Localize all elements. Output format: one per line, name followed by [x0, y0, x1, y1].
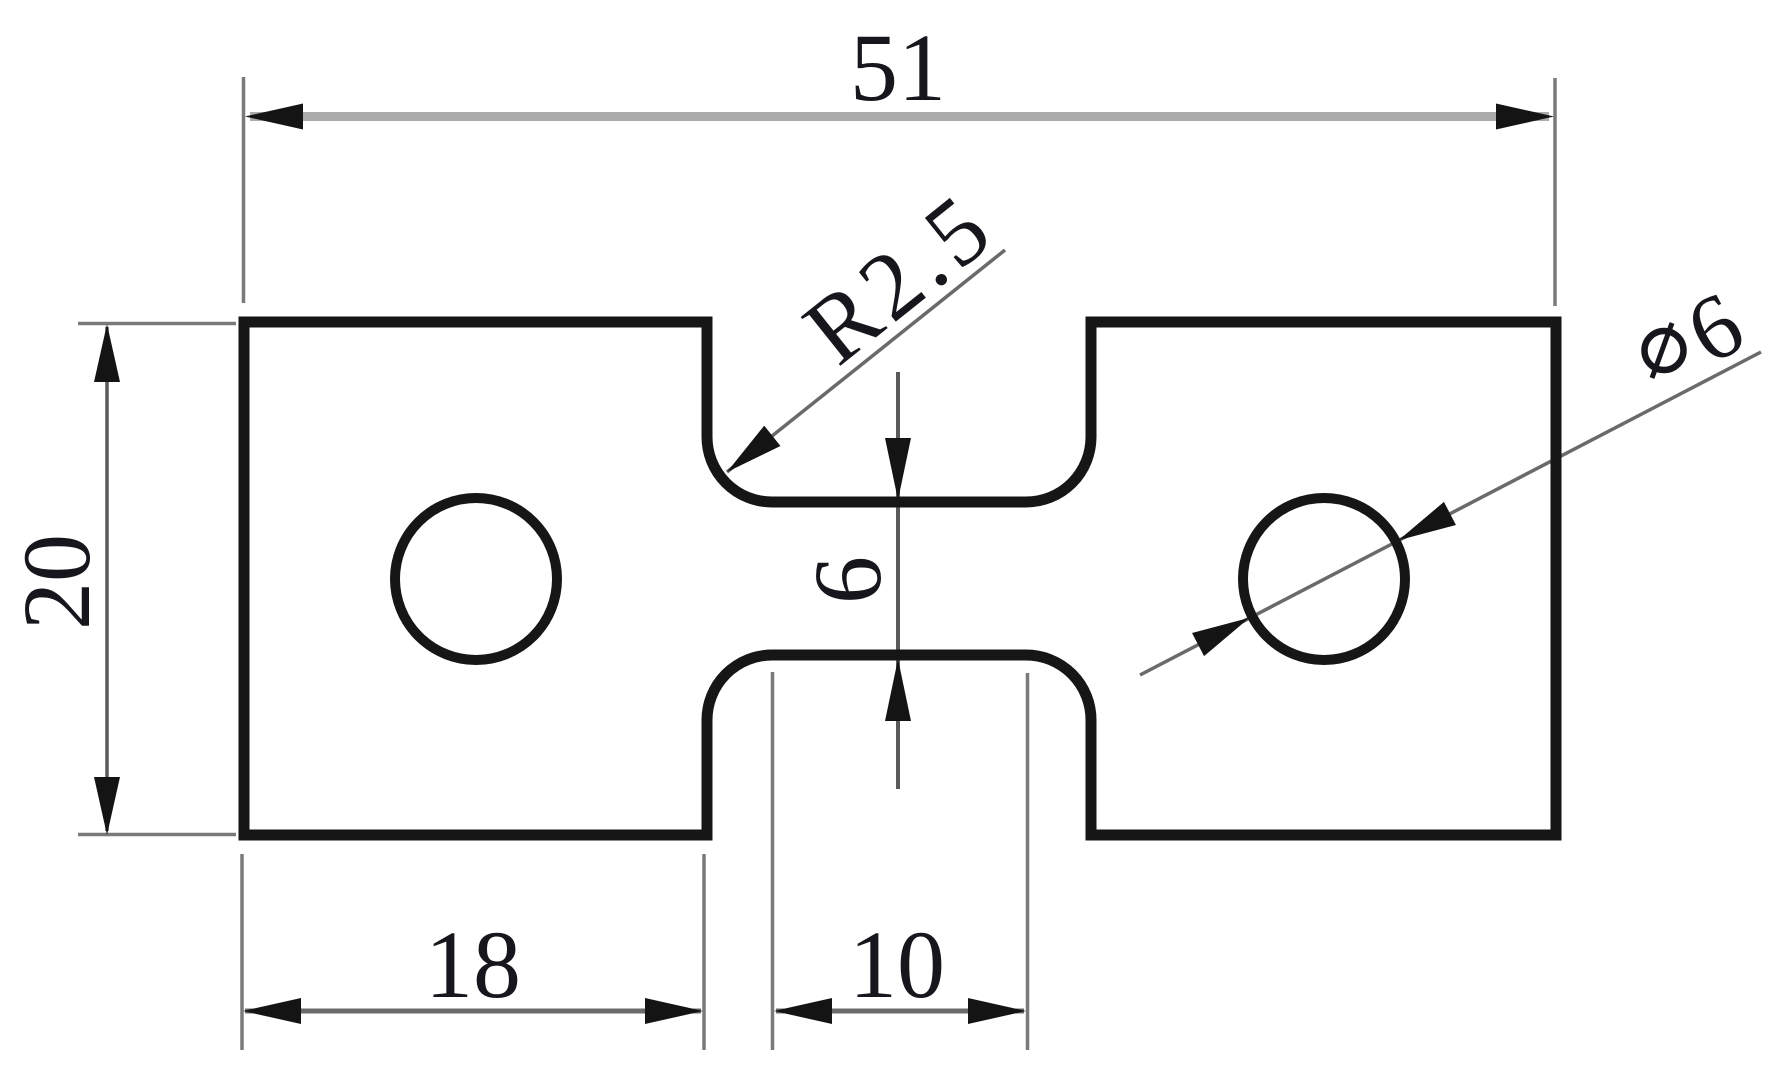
- dimension 51 extension line left: [242, 77, 246, 303]
- dimension 51 arrowhead left: [245, 104, 303, 130]
- dimension 18 dimension line: [245, 1009, 701, 1014]
- dimension 51 extension line right: [1553, 78, 1557, 306]
- dimension 18 arrowhead right: [645, 998, 703, 1024]
- dimension 6 arrowhead down: [885, 438, 911, 500]
- dimension 18 extension line right: [702, 854, 706, 1050]
- dimension 20 extension line bottom: [78, 833, 236, 837]
- svg-text:51: 51: [850, 14, 946, 121]
- radius leader R2.5 arrowhead: [719, 426, 781, 483]
- dimension 18 extension line left: [240, 854, 244, 1050]
- dimension 10 arrowhead left: [774, 998, 832, 1024]
- dimension 10 arrowhead right: [968, 998, 1026, 1024]
- dimension 20 dimension line: [105, 327, 109, 831]
- dimension 20 arrowhead up: [94, 324, 120, 382]
- diameter leader o6 arrowhead upper: [1392, 502, 1455, 552]
- dimension 51 arrowhead right: [1496, 104, 1554, 130]
- radius leader R2.5 line: [727, 250, 1005, 472]
- dimension 6 arrowhead up: [885, 659, 911, 721]
- dimension 10 dimension line: [776, 1009, 1024, 1014]
- dimension 10 extension line right: [1026, 673, 1030, 1050]
- diameter label o6: slashed-circle symbol: [1645, 331, 1684, 370]
- svg-text:18: 18: [425, 911, 521, 1018]
- dimension 6 dimension line: [896, 372, 900, 789]
- dimension 20 arrowhead down: [94, 777, 120, 835]
- specimen outline (dog-bone part): [244, 322, 1556, 835]
- svg-text:10: 10: [849, 911, 945, 1018]
- hole right circle: [1243, 498, 1405, 660]
- diameter leader o6 line: [1140, 352, 1761, 675]
- dimension 18 arrowhead left: [243, 998, 301, 1024]
- hole left circle: [395, 498, 557, 660]
- dimension 20 extension line top: [78, 322, 236, 326]
- svg-text:6: 6: [794, 556, 901, 604]
- diameter leader o6 arrowhead lower: [1192, 606, 1255, 656]
- dimension 10 extension line left: [771, 672, 775, 1050]
- svg-text:20: 20: [3, 534, 110, 630]
- dimension 51 dimension line: [250, 112, 1549, 121]
